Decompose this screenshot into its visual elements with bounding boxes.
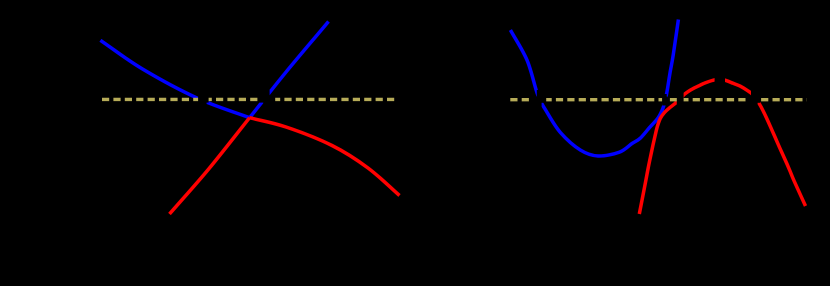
right panel: red hump curve bbox=[639, 79, 805, 214]
gap bar at left blue-dash crossing 1 bbox=[199, 90, 207, 110]
left panel: blue increasing line g2 bbox=[250, 22, 329, 118]
gap bar at right red-dash crossing 2 bbox=[751, 90, 758, 110]
right panel: blue parabola-like curve bbox=[510, 20, 678, 157]
gap bar at red hump peak bbox=[715, 62, 725, 90]
left panel: red increasing line f1 bbox=[170, 118, 250, 214]
gap bar at right blue-dash crossing 2 bbox=[662, 94, 667, 106]
left panel: blue decreasing curve g1 bbox=[100, 40, 249, 117]
gap bar at right red-dash crossing 1 bbox=[677, 91, 684, 109]
left panel: khaki dashed level line bbox=[102, 98, 398, 101]
gap bar at left blue-dash crossing 2 bbox=[263, 90, 269, 110]
left panel: red decreasing curve f2 bbox=[250, 118, 400, 196]
gap bar at right blue-dash crossing 1 bbox=[537, 90, 542, 110]
right panel: khaki dashed level line bbox=[510, 98, 807, 101]
